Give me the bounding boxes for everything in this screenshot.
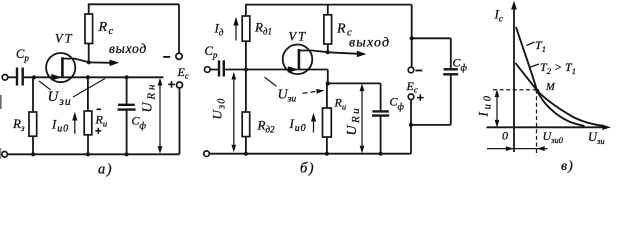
svg-text:VT: VT: [289, 30, 308, 44]
svg-text:T2 > T1: T2 > T1: [540, 60, 576, 76]
svg-text:0: 0: [502, 129, 508, 143]
svg-text:выход: выход: [109, 41, 147, 56]
svg-text:б): б): [300, 161, 315, 177]
svg-text:выход: выход: [349, 36, 390, 51]
svg-text:M: M: [545, 82, 556, 93]
svg-text:VT: VT: [55, 32, 74, 46]
svg-text:в): в): [561, 159, 574, 174]
svg-text:а): а): [98, 162, 113, 178]
